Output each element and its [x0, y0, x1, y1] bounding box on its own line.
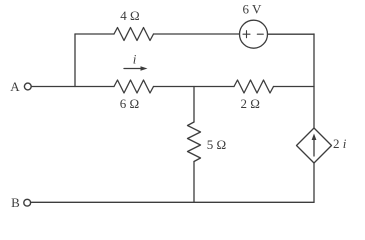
- svg-text:2 Ω: 2 Ω: [240, 96, 259, 111]
- wire bottom rail (B to right vertical): [31, 201, 314, 203]
- wire middle rail left (A to left vertical): [31, 86, 114, 88]
- svg-text:6 Ω: 6 Ω: [120, 96, 139, 111]
- resistor 4-ohm: [114, 28, 154, 41]
- wire top rail right (voltage source to right vertical): [268, 33, 315, 35]
- wire middle rail right (2-ohm to right vertical): [274, 86, 315, 88]
- svg-text:5 Ω: 5 Ω: [207, 137, 226, 152]
- svg-text:6 V: 6 V: [243, 2, 263, 17]
- resistor 5-ohm: [188, 122, 201, 162]
- voltage source V1 6V: [240, 20, 268, 48]
- wire top rail middle (4-ohm to voltage source): [154, 33, 240, 35]
- resistor 6-ohm: [114, 80, 154, 93]
- svg-text:i: i: [133, 52, 137, 67]
- wire 5-ohm branch lower (resistor to bottom rail): [193, 162, 195, 203]
- svg-text:A: A: [10, 79, 20, 94]
- wire left vertical (top rail to middle rail): [74, 34, 76, 87]
- dependent current source 2i: [297, 128, 332, 163]
- wire right vertical upper (top rail to current source): [313, 34, 315, 128]
- wire middle rail center (6-ohm to 2-ohm): [154, 86, 235, 88]
- svg-text:4 Ω: 4 Ω: [120, 8, 139, 23]
- resistor 2-ohm: [234, 80, 274, 93]
- wire 5-ohm branch upper (middle rail to resistor): [193, 87, 195, 123]
- wire right vertical lower (current source to bottom rail): [313, 163, 315, 202]
- wire top rail left (corner to 4-ohm resistor): [75, 33, 114, 35]
- node A terminal: [10, 79, 31, 94]
- svg-text:B: B: [11, 195, 20, 210]
- current arrow i: [124, 66, 148, 71]
- svg-text:2 i: 2 i: [333, 136, 347, 151]
- node B terminal: [11, 195, 30, 210]
